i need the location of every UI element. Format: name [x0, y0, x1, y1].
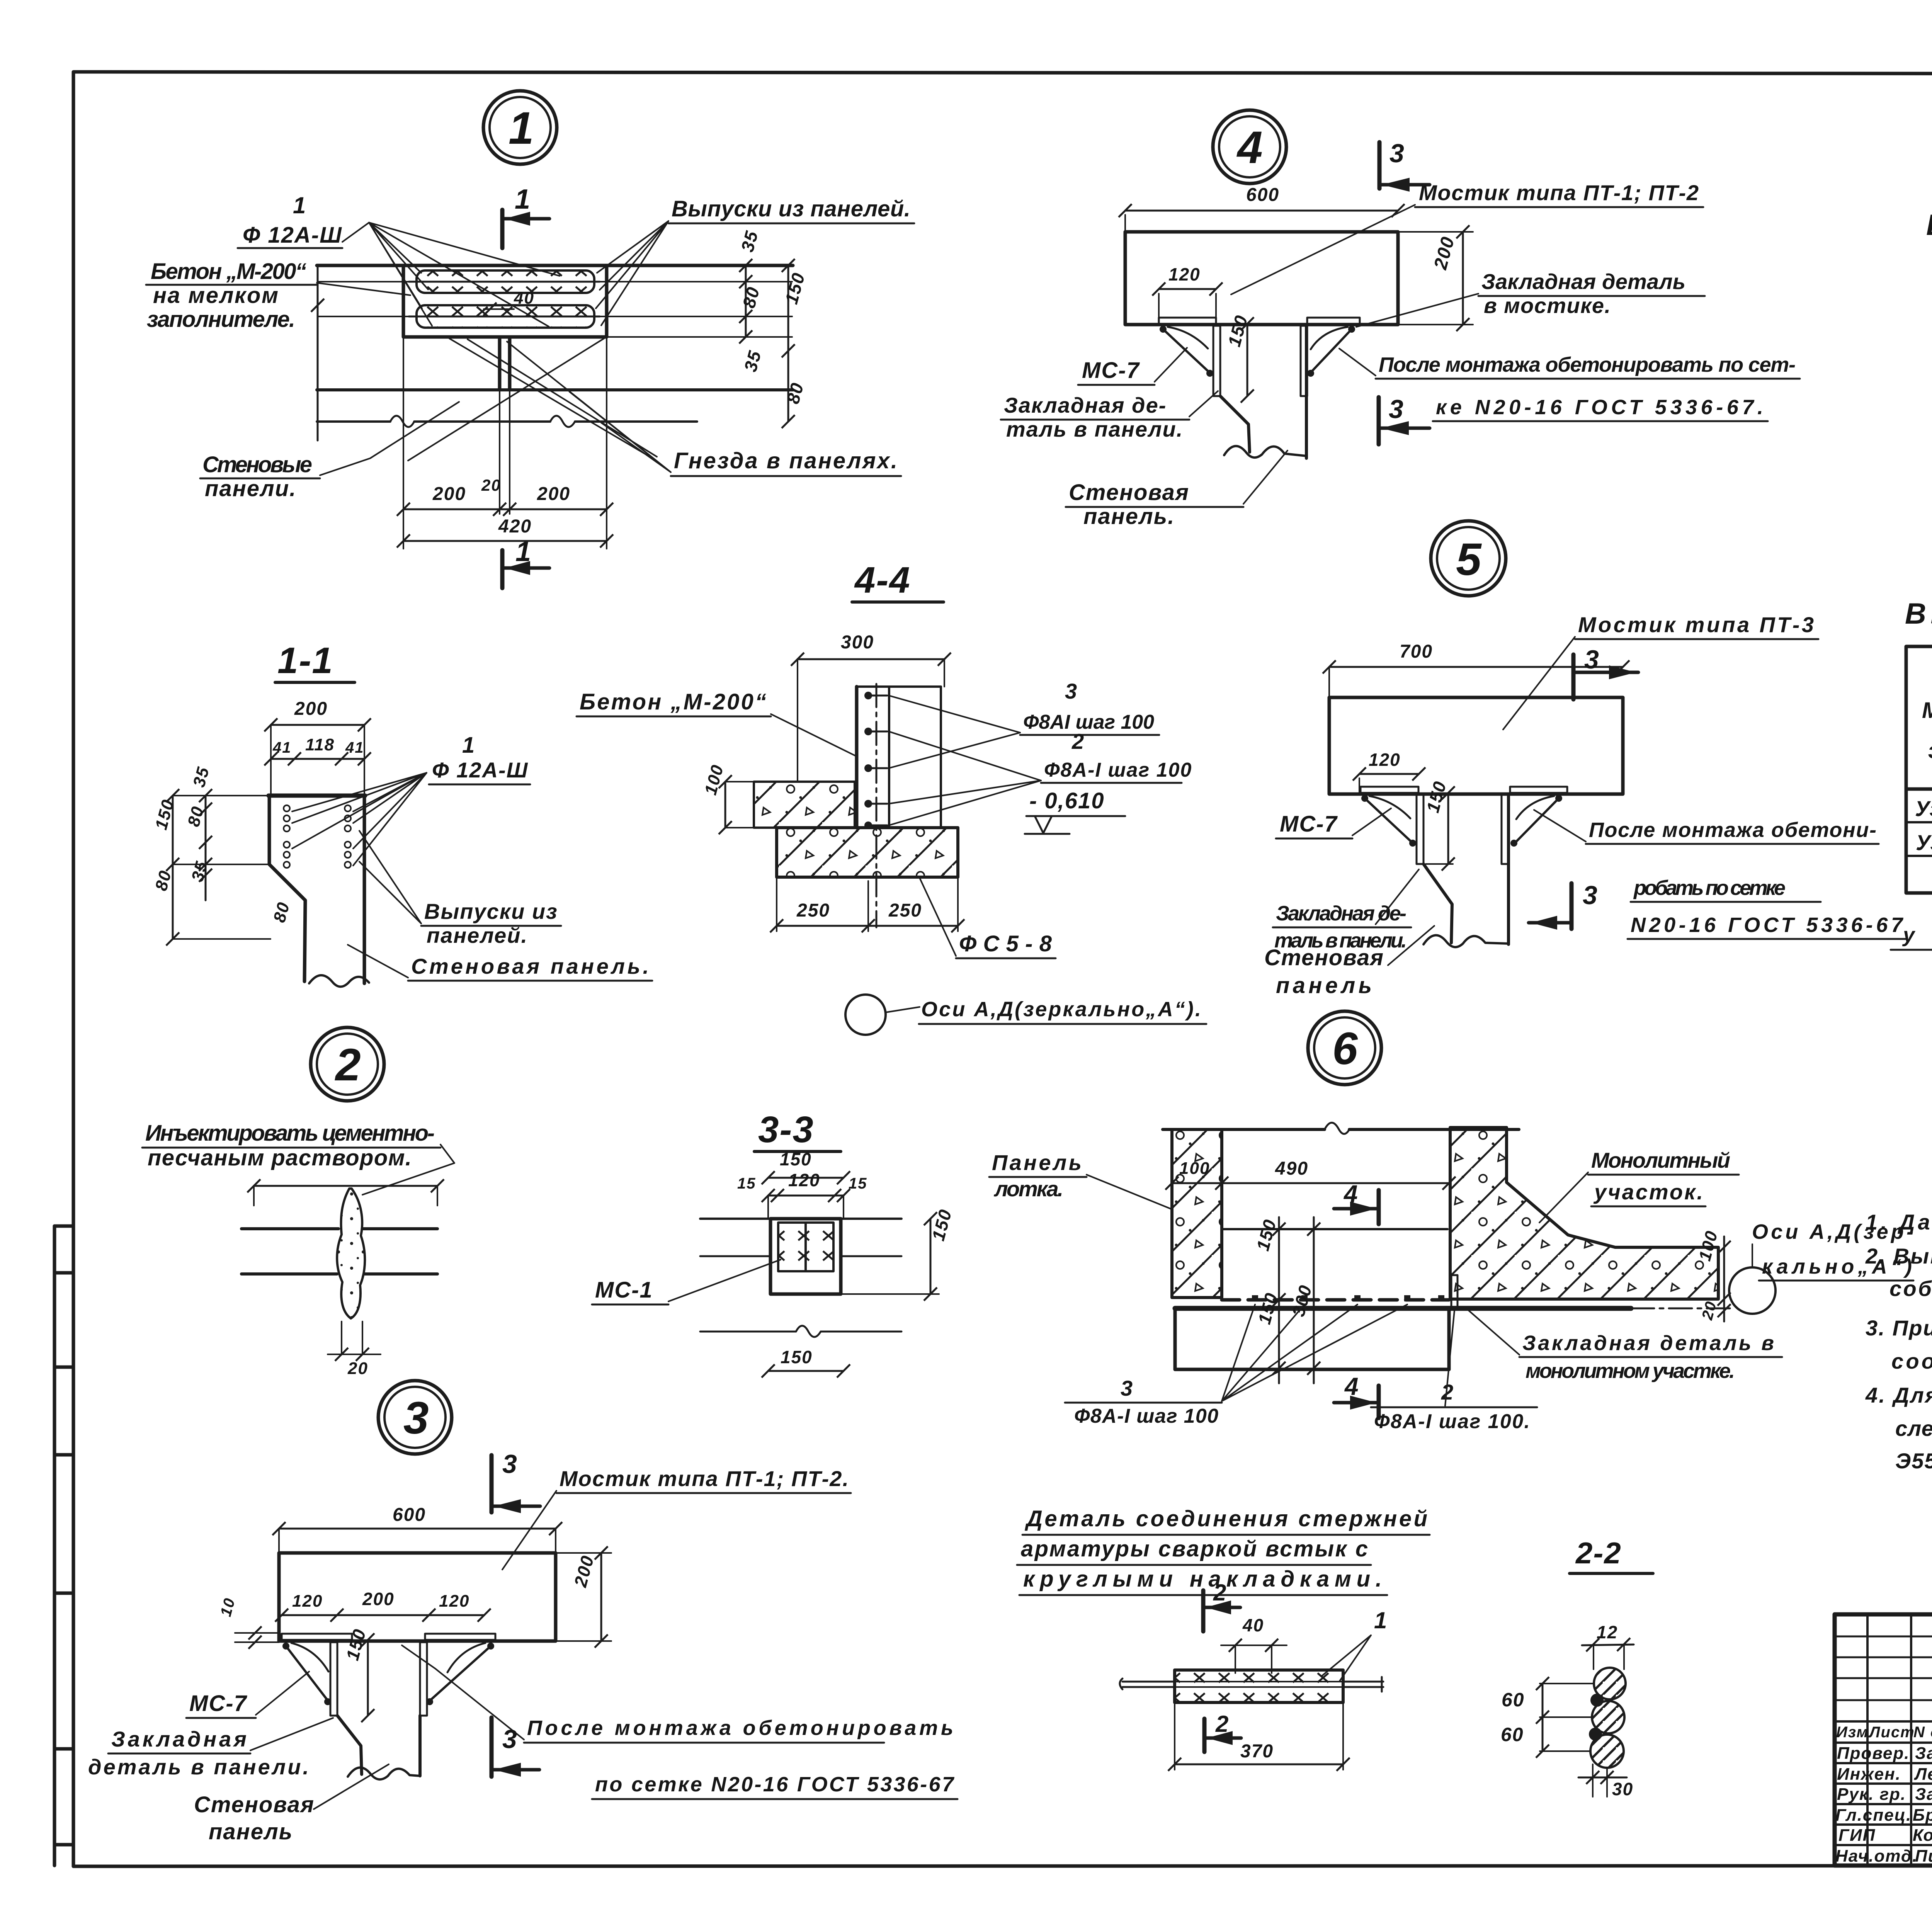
svg-text:15: 15	[737, 1175, 756, 1192]
embedded plate left (МС-7 bracket)	[1159, 318, 1220, 396]
svg-text:песчаным раствором.: песчаным раствором.	[148, 1145, 412, 1170]
svg-text:120: 120	[1369, 750, 1401, 770]
svg-text:2-2: 2-2	[1575, 1536, 1622, 1570]
svg-text:Левина: Левина	[1914, 1765, 1932, 1784]
svg-text:120: 120	[1168, 264, 1201, 284]
svg-text:2. Выпуски арматуры стеновых п: 2. Выпуски арматуры стеновых панелей сва…	[1865, 1244, 1932, 1268]
svg-text:3. При соединении стержней сва: 3. При соединении стержней сваркой необх…	[1866, 1316, 1932, 1340]
foundation block ФС5-8 (4-4)	[777, 828, 958, 877]
dim 200 (1-1)	[264, 699, 371, 731]
svg-text:Мостик типа ПТ-3: Мостик типа ПТ-3	[1578, 612, 1815, 637]
svg-text:150: 150	[780, 1149, 812, 1169]
table 2 grid	[1906, 646, 1932, 893]
svg-text:5: 5	[1456, 534, 1482, 585]
svg-text:120: 120	[439, 1592, 469, 1611]
dim 700 (detail 5)	[1323, 641, 1629, 697]
svg-text:15: 15	[849, 1175, 867, 1192]
monolith mass (hatched polygon)	[1450, 1128, 1718, 1299]
leader fan to Ф12А-III (1-1)	[292, 773, 427, 866]
svg-text:490: 490	[1275, 1158, 1308, 1179]
table 2 data rows	[1915, 796, 1932, 855]
right bracket (detail 5)	[1502, 787, 1567, 864]
svg-text:Деталь соединения стержней: Деталь соединения стержней	[1024, 1506, 1428, 1531]
svg-text:на мелком: на мелком	[153, 283, 279, 308]
section title 4-4	[852, 560, 944, 602]
svg-text:2: 2	[1215, 1711, 1229, 1737]
label 1 with leaders (weld detail)	[1321, 1607, 1388, 1682]
wall panel (detail 3)	[337, 1716, 420, 1779]
label МС-7 (detail 5)	[1276, 808, 1391, 838]
beam (мостик) rectangle	[1125, 232, 1398, 325]
svg-text:100: 100	[1179, 1159, 1210, 1178]
svg-text:Узел 6: Узел 6	[1916, 830, 1932, 855]
dims 250 250 (4-4)	[770, 877, 964, 932]
label ФС5-8	[920, 878, 1056, 958]
svg-text:Рук. гр.: Рук. гр.	[1837, 1785, 1906, 1804]
grout blob	[337, 1189, 365, 1318]
svg-text:Инжен.: Инжен.	[1837, 1765, 1901, 1784]
label МС-1	[592, 1260, 781, 1304]
wire: long horizontal panel edges	[317, 264, 793, 267]
dim 600	[1119, 185, 1405, 232]
svg-text:по сетке N20-16 ГОСТ 5336-67: по сетке N20-16 ГОСТ 5336-67	[595, 1773, 955, 1796]
three bar circles (2-2)	[1589, 1668, 1626, 1768]
dim 30 (2-2)	[1578, 1764, 1633, 1799]
svg-text:3: 3	[1065, 679, 1078, 703]
section mark 1 (top)	[502, 184, 549, 248]
crossing diagonals in lower band	[408, 338, 657, 461]
svg-text:Мостик типа ПТ-1; ПТ-2: Мостик типа ПТ-1; ПТ-2	[1419, 180, 1699, 205]
dims 120 200 120 (detail 3)	[275, 1589, 491, 1622]
svg-text:120: 120	[788, 1170, 820, 1190]
svg-text:робать по сетке: робать по сетке	[1633, 876, 1786, 900]
svg-text:следует применять электроды ти: следует применять электроды типа Э42А-Ф;…	[1895, 1416, 1932, 1440]
svg-text:300: 300	[841, 632, 874, 653]
label Мостик типа ПТ-1; ПТ-2 (detail 4)	[1231, 180, 1703, 294]
axis label and circle (detail 6)	[1631, 1220, 1914, 1314]
section mark 1 (bottom)	[502, 536, 549, 588]
svg-text:Закладная деталь в: Закладная деталь в	[1522, 1332, 1775, 1355]
label Инъектировать цементно-песчаным раствором	[142, 1121, 454, 1195]
beam rect (detail 3)	[279, 1553, 556, 1641]
section mark 4 (top, detail 6)	[1334, 1180, 1379, 1224]
wall panel (detail 5)	[1423, 794, 1509, 947]
vertical dims 150 150 300 (detail 6)	[1252, 1217, 1320, 1383]
svg-text:МС-7: МС-7	[1082, 358, 1140, 383]
embedded plate right (bracket)	[1301, 318, 1360, 396]
label Закладная деталь в панели (detail 5)	[1273, 869, 1419, 952]
node circle 3	[378, 1381, 452, 1454]
svg-text:118: 118	[305, 735, 335, 754]
wall verticals (4-4)	[857, 684, 941, 927]
section mark 2 (top, weld detail)	[1203, 1580, 1240, 1631]
panel body rect	[403, 265, 607, 337]
svg-text:3: 3	[1389, 395, 1404, 424]
svg-text:соосность стыкуемых стержней.: соосность стыкуемых стержней.	[1891, 1349, 1932, 1373]
dim 300 (4-4)	[791, 632, 951, 782]
section title 3-3	[754, 1109, 841, 1151]
joint drawing: slabs	[241, 1179, 444, 1274]
svg-text:собой накладками из арматурных: собой накладками из арматурных стержней …	[1889, 1276, 1932, 1301]
svg-text:Гнезда в панелях.: Гнезда в панелях.	[674, 448, 898, 473]
svg-text:30: 30	[1612, 1779, 1633, 1799]
mesh band bottom	[318, 305, 600, 328]
svg-text:3: 3	[1584, 645, 1600, 674]
left bracket (detail 3)	[282, 1634, 352, 1716]
section title 1-1	[275, 640, 355, 682]
svg-text:1: 1	[515, 184, 531, 215]
svg-text:250: 250	[888, 900, 922, 921]
svg-text:3: 3	[502, 1725, 518, 1754]
title Деталь соединения стержней	[1017, 1506, 1430, 1595]
label: reinforcement 1 Ф12А-III with leader fan	[238, 192, 560, 327]
svg-text:Бетон „М-200“: Бетон „М-200“	[580, 689, 767, 714]
svg-text:6: 6	[1332, 1023, 1359, 1074]
dim 100 (detail 6)	[1165, 1159, 1228, 1190]
svg-text:3: 3	[1121, 1376, 1133, 1400]
svg-text:Изм: Изм	[1836, 1724, 1869, 1741]
svg-text:2: 2	[1213, 1580, 1227, 1605]
label Мостик типа ПТ-1; ПТ-2 (detail 3)	[502, 1466, 851, 1570]
svg-text:2: 2	[335, 1039, 362, 1090]
svg-text:Панель: Панель	[992, 1150, 1082, 1175]
svg-text:Узел 1: Узел 1	[1915, 796, 1932, 821]
svg-text:арматуры сваркой встык с: арматуры сваркой встык с	[1021, 1536, 1369, 1561]
left dim chains (1-1)	[151, 765, 293, 946]
label Закладная деталь в панели (detail 3)	[88, 1718, 333, 1779]
dim 100 (4-4)	[701, 762, 754, 834]
dim 10 left (detail 3)	[217, 1596, 279, 1649]
node circle 6	[1308, 1011, 1381, 1085]
svg-text:370: 370	[1240, 1741, 1274, 1762]
embedded plate in monolith	[1451, 1275, 1458, 1308]
level mark -0,610	[1025, 788, 1125, 834]
label Бетон М-200 (4-4)	[577, 689, 855, 756]
svg-text:2: 2	[1071, 729, 1085, 753]
svg-text:Стеновая: Стеновая	[1264, 945, 1384, 970]
dim 40 (weld detail)	[1221, 1615, 1287, 1673]
svg-text:Ф 12А-Ш: Ф 12А-Ш	[243, 223, 342, 248]
dim 370 (weld detail)	[1168, 1702, 1350, 1771]
svg-text:Пичахчи: Пичахчи	[1915, 1847, 1932, 1866]
node circle 5	[1431, 521, 1506, 596]
svg-text:Выпуски из панелей.: Выпуски из панелей.	[672, 196, 911, 221]
svg-text:После монтажа обетони-: После монтажа обетони-	[1589, 818, 1877, 842]
dim 150 (detail 5)	[1422, 779, 1455, 871]
dim 120 (detail 5)	[1353, 750, 1425, 793]
title block grid	[1835, 1614, 1932, 1866]
section mark 3 (bottom, detail 4)	[1379, 395, 1430, 444]
svg-text:N20-16 ГОСТ 5336-67: N20-16 ГОСТ 5336-67	[1631, 913, 1904, 937]
svg-text:3: 3	[502, 1449, 518, 1479]
label Выпуски из панелей (1-1)	[359, 831, 561, 947]
label Стеновая панель (detail 5)	[1264, 926, 1434, 998]
svg-text:3: 3	[1389, 139, 1405, 168]
section mark 3 (top, detail 3)	[492, 1449, 540, 1513]
svg-text:Инъектировать цементно-: Инъектировать цементно-	[145, 1121, 435, 1146]
svg-text:После монтажа обетонировать: После монтажа обетонировать	[527, 1716, 954, 1740]
svg-text:Стеновая: Стеновая	[194, 1792, 315, 1817]
svg-text:МС-7: МС-7	[189, 1691, 248, 1716]
svg-text:эл-та: эл-та	[1928, 738, 1932, 763]
svg-text:Нач.отд.: Нач.отд.	[1835, 1847, 1918, 1866]
wall panel below detail 4	[1220, 325, 1306, 458]
svg-text:4. Для сварных соединений стер: 4. Для сварных соединений стержней армат…	[1865, 1383, 1932, 1407]
rebar dots (1-1)	[284, 805, 351, 868]
svg-text:Закладная де-: Закладная де-	[1004, 393, 1167, 417]
node circle 1	[483, 91, 557, 164]
table 2 header texts	[1922, 655, 1932, 793]
svg-text:- 0,610: - 0,610	[1029, 788, 1105, 813]
svg-text:Лист: Лист	[1868, 1724, 1915, 1741]
svg-text:Э55-Ф.: Э55-Ф.	[1895, 1449, 1932, 1473]
svg-text:Ф8А-I шаг 100: Ф8А-I шаг 100	[1074, 1405, 1219, 1427]
svg-text:Выпуски из: Выпуски из	[424, 899, 558, 923]
label: Бетон М-200 на мелком заполнителе	[146, 259, 410, 332]
svg-text:Ф 12А-Ш: Ф 12А-Ш	[432, 758, 528, 782]
dim chain right side	[600, 228, 809, 428]
svg-text:1-1: 1-1	[277, 640, 333, 681]
svg-text:1: 1	[462, 733, 475, 758]
svg-text:20: 20	[347, 1359, 368, 1378]
svg-text:3: 3	[1583, 881, 1598, 910]
axis circle (4-4)	[845, 995, 920, 1035]
svg-text:60: 60	[1502, 1689, 1525, 1711]
svg-text:600: 600	[393, 1505, 426, 1525]
title block left column texts	[1836, 1724, 1932, 1741]
label МС-7 (detail 4)	[1078, 348, 1187, 385]
section mark 3 (bottom, detail 5)	[1529, 881, 1598, 930]
dim 120 (detail 4)	[1152, 264, 1223, 317]
svg-text:Ф8АI шаг 100: Ф8АI шаг 100	[1023, 711, 1155, 733]
section mark 2 (bottom, weld detail)	[1204, 1711, 1241, 1752]
svg-text:Мостик типа ПТ-1; ПТ-2.: Мостик типа ПТ-1; ПТ-2.	[560, 1466, 849, 1491]
svg-text:Провер.: Провер.	[1837, 1744, 1910, 1763]
svg-text:40: 40	[514, 289, 534, 308]
label После монтажа обетонировать (detail 3)	[402, 1645, 957, 1799]
wall stem	[498, 337, 502, 390]
svg-text:40: 40	[1242, 1615, 1264, 1635]
dim 200 right (detail 3)	[556, 1546, 611, 1648]
label Закладная деталь в монолитном участке	[1464, 1307, 1782, 1383]
label Стеновая панель (detail 3)	[194, 1764, 389, 1844]
label Стеновая панель (1-1)	[348, 945, 652, 981]
svg-text:Ведомость стержней на один эле: Ведомость стержней на один элемент.	[1926, 209, 1932, 241]
svg-text:Стеновая панель.: Стеновая панель.	[411, 954, 650, 978]
svg-text:1: 1	[1374, 1607, 1388, 1633]
label: Гнезда в панелях	[507, 342, 901, 476]
top break line (detail 6)	[1163, 1128, 1519, 1131]
dim 150 right (3-3)	[841, 1207, 956, 1301]
svg-text:Ф8А-I шаг 100.: Ф8А-I шаг 100.	[1374, 1410, 1531, 1433]
left bracket (detail 5)	[1361, 787, 1423, 864]
splice bar drawing	[1120, 1670, 1383, 1702]
svg-text:600: 600	[1246, 185, 1279, 205]
dim 600 (detail 3)	[272, 1505, 562, 1553]
mesh band top	[318, 270, 600, 293]
lower panel (detail 6)	[1175, 1308, 1449, 1369]
beam ПТ-3	[1329, 697, 1623, 794]
rebar dots with hooks (4-4)	[864, 692, 887, 829]
box section МС-1 (3-3)	[700, 1219, 901, 1337]
svg-text:4-4: 4-4	[854, 560, 911, 601]
section mark 3 (top, detail 5)	[1573, 645, 1638, 699]
slab bottom thick line (detail 6)	[1175, 1306, 1631, 1311]
svg-text:После монтажа обетонировать по: После монтажа обетонировать по сет-	[1379, 353, 1796, 376]
section mark 3 (bottom, detail 3)	[492, 1718, 539, 1777]
svg-text:заполнителе.: заполнителе.	[147, 307, 296, 332]
svg-text:Козловская: Козловская	[1913, 1826, 1932, 1845]
dim 100 / 20 right (detail 6)	[1695, 1228, 1731, 1322]
label 2 Ф8А-I шаг 100 (detail 6)	[1371, 1311, 1537, 1433]
svg-text:Ф8А-I шаг 100: Ф8А-I шаг 100	[1044, 759, 1192, 781]
dims 41 118 41 (1-1)	[264, 725, 371, 796]
section mark 3 (top, detail 4)	[1379, 139, 1430, 192]
dim 20 (joint)	[328, 1321, 381, 1378]
svg-text:МС-7: МС-7	[1280, 811, 1338, 837]
dim 490 (detail 6)	[1222, 1158, 1456, 1190]
dim 150 top (3-3)	[762, 1149, 850, 1184]
svg-text:200: 200	[294, 699, 328, 719]
svg-text:МС-1: МС-1	[595, 1277, 653, 1303]
svg-text:120: 120	[292, 1592, 323, 1611]
svg-text:Бетон „М-200“: Бетон „М-200“	[151, 259, 307, 284]
node circle 2	[311, 1027, 384, 1101]
svg-text:у: у	[1902, 923, 1916, 947]
svg-text:лотка.: лотка.	[993, 1177, 1064, 1201]
anchor dashed line with plates (detail 6)	[1222, 1295, 1449, 1301]
label Закладная деталь в панели (detail 4)	[1001, 391, 1218, 441]
label После монтажа обетонировать по сетке (detail 5)	[1534, 810, 1906, 939]
label 2 Ф8А-I шаг 100 (4-4)	[889, 729, 1192, 825]
node circle 4	[1213, 110, 1286, 184]
svg-text:Гл.спец.: Гл.спец.	[1835, 1806, 1912, 1825]
dim 12 (2-2)	[1582, 1622, 1634, 1669]
dim 150 (detail 3)	[342, 1626, 374, 1722]
svg-text:Зантберг: Зантберг	[1915, 1744, 1932, 1763]
svg-text:Монолитный: Монолитный	[1591, 1148, 1731, 1172]
svg-text:700: 700	[1400, 641, 1433, 662]
wall section outline (1-1)	[269, 796, 369, 987]
section title 2-2	[1570, 1536, 1653, 1573]
label МС-7 (detail 3)	[186, 1672, 309, 1718]
svg-text:Оси А,Д(зеркально„А“).: Оси А,Д(зеркально„А“).	[921, 998, 1202, 1021]
dim 40 (mesh gap)	[483, 289, 534, 316]
svg-text:Стеновая: Стеновая	[1069, 480, 1189, 505]
svg-text:200: 200	[432, 484, 466, 504]
svg-text:Закладная деталь: Закладная деталь	[1481, 269, 1686, 294]
svg-text:3-3: 3-3	[758, 1109, 814, 1150]
dim 150 bottom (3-3)	[762, 1347, 850, 1378]
label Панель лотка	[989, 1150, 1172, 1209]
dim 200 right of beam	[1398, 225, 1473, 331]
svg-text:1: 1	[293, 192, 306, 218]
label 3 Ф8АI шаг 100 (4-4)	[889, 679, 1159, 768]
dims 15 120 15 (3-3)	[737, 1170, 867, 1219]
lotок panel strip (hatched)	[1172, 1129, 1222, 1298]
svg-text:200: 200	[362, 1589, 395, 1609]
svg-text:N докумен.: N докумен.	[1913, 1724, 1932, 1741]
svg-text:1: 1	[509, 103, 535, 154]
svg-text:150: 150	[781, 1347, 813, 1367]
svg-text:Стеновые: Стеновые	[202, 452, 313, 477]
right bracket (detail 3)	[420, 1634, 495, 1716]
svg-text:Браславский: Браславский	[1913, 1806, 1932, 1825]
svg-text:Закладная: Закладная	[111, 1727, 247, 1751]
svg-text:круглыми накладками.: круглыми накладками.	[1023, 1566, 1383, 1592]
sheet frame	[74, 72, 1932, 74]
svg-text:250: 250	[796, 900, 830, 921]
label 1 Ф12А-III (1-1)	[429, 733, 530, 784]
svg-text:панель: панель	[209, 1819, 293, 1844]
label Оси А,Д (зеркально А)	[919, 998, 1206, 1024]
dim 150 (detail 4)	[1224, 313, 1254, 403]
label Монолитный участок	[1539, 1148, 1739, 1223]
label Мостик типа ПТ-3	[1503, 612, 1818, 730]
svg-text:20: 20	[481, 476, 501, 494]
svg-text:200: 200	[537, 484, 570, 504]
label Закладная деталь в мостике (detail 4)	[1356, 269, 1705, 327]
svg-text:панели.: панели.	[205, 476, 296, 501]
svg-text:ГИП: ГИП	[1838, 1826, 1876, 1845]
svg-text:60: 60	[1501, 1724, 1524, 1745]
fold marks left margin	[53, 1226, 56, 1866]
label: Стеновые панели	[200, 402, 459, 501]
svg-text:деталь в панели.: деталь в панели.	[88, 1755, 310, 1779]
svg-text:420: 420	[498, 516, 532, 537]
svg-text:1. Данный лист комплектен с ли: 1. Данный лист комплектен с листами КЖ-6…	[1866, 1210, 1932, 1234]
svg-text:монолитном участке.: монолитном участке.	[1526, 1359, 1736, 1383]
label: Выпуски из панелей with leader fan	[596, 196, 914, 325]
dims bottom 200 20 200 / 420	[397, 337, 613, 549]
dims 60 60 (2-2)	[1501, 1677, 1593, 1758]
svg-text:4: 4	[1236, 122, 1264, 173]
svg-text:Марка: Марка	[1922, 698, 1932, 723]
hidden dashed line (detail 6)	[1222, 1228, 1447, 1230]
hatched panel strip (4-4)	[754, 782, 855, 828]
label После монтажа обетонировать по сетке (detail 4)	[1339, 349, 1800, 421]
label 3 Ф8А-I шаг 100 (detail 6)	[1065, 1304, 1407, 1427]
svg-text:Закладная де-: Закладная де-	[1276, 902, 1407, 925]
section mark 4 (bottom, detail 6)	[1334, 1372, 1379, 1418]
svg-text:3: 3	[403, 1393, 430, 1444]
svg-text:Зантберг: Зантберг	[1915, 1785, 1932, 1804]
label Стеновая панель (detail 4)	[1066, 451, 1287, 529]
